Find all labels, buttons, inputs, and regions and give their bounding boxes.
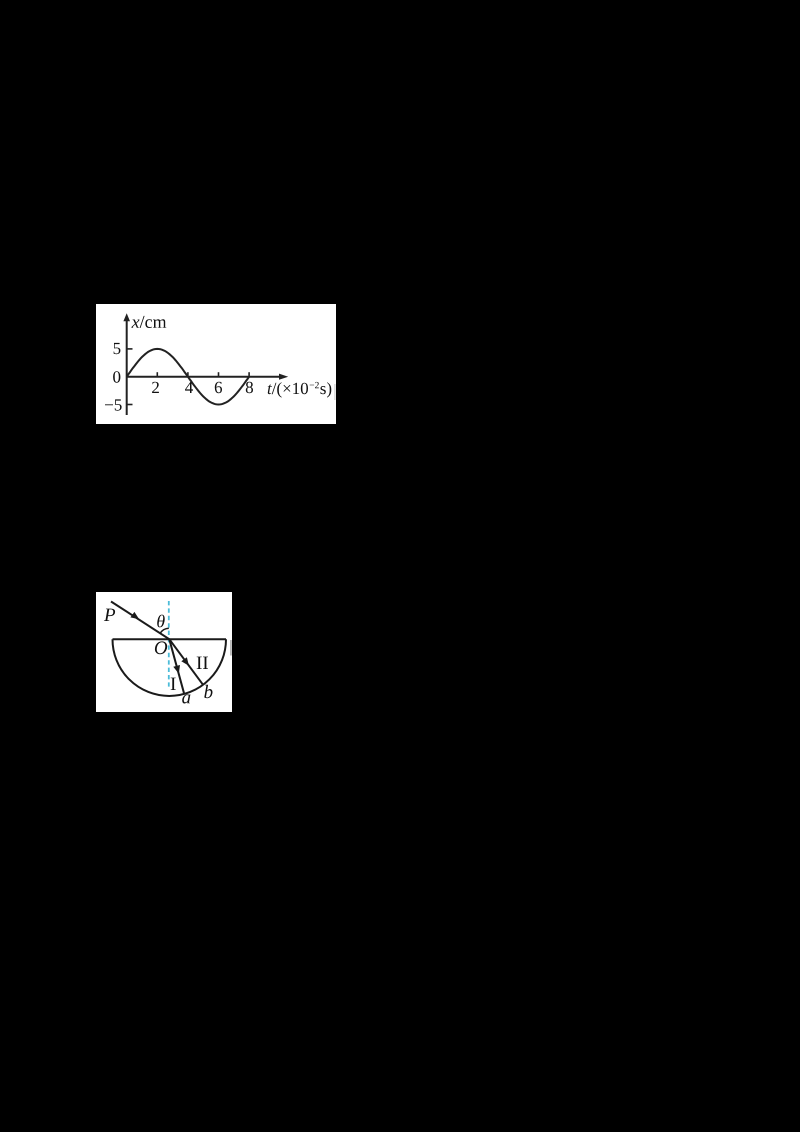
y-axis	[123, 313, 130, 415]
label 0	[113, 371, 120, 383]
tick t=6	[218, 372, 220, 377]
normal line (dashed)	[168, 601, 170, 687]
label O	[155, 641, 167, 654]
label I	[171, 678, 176, 690]
angle arc theta	[160, 628, 169, 633]
label 5	[114, 343, 121, 354]
sine curve	[127, 349, 249, 405]
label 8	[246, 382, 253, 394]
refracted ray II	[169, 639, 202, 684]
label t/(x10^-2 s)	[268, 382, 332, 398]
tick t=2	[156, 372, 158, 377]
figure 2: semicircular glass block refraction diagram	[96, 592, 232, 712]
figure 1: displacement-time sine graph	[96, 304, 336, 424]
label II	[197, 657, 208, 669]
label -5	[105, 399, 122, 410]
tick x=5	[127, 348, 133, 350]
label P	[104, 609, 115, 621]
incident ray P	[111, 602, 169, 640]
refracted ray I	[169, 639, 184, 693]
label x/cm	[131, 316, 166, 328]
label 4	[185, 382, 193, 393]
label 6	[215, 382, 222, 394]
semicircular glass block	[113, 639, 227, 696]
label theta	[157, 615, 165, 628]
scan artifact sliver	[230, 640, 232, 656]
scan artifact sliver	[334, 384, 335, 400]
tick t=8	[248, 372, 250, 377]
label b	[204, 685, 212, 698]
tick t=4	[187, 372, 189, 377]
label 2	[152, 382, 159, 393]
x-axis	[127, 374, 289, 380]
label a	[182, 694, 190, 703]
tick x=-5	[127, 404, 133, 406]
